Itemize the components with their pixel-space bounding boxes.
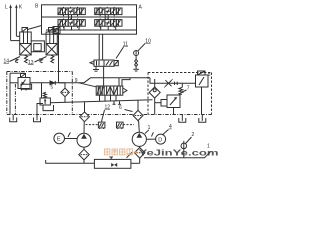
leader for label 10: [138, 44, 145, 51]
wire row connector right group: [107, 15, 109, 20]
solenoid of valve 8: [198, 71, 206, 75]
svg-text:E: E: [57, 137, 61, 143]
wire relief valve 7 drain: [173, 108, 175, 115]
suction filter of pump 1: [79, 147, 89, 163]
wire pilot diagonal from valve 13 to block B: [54, 28, 59, 30]
wire diagonal to mid rail: [84, 78, 150, 83]
valve 8 body: [196, 75, 209, 87]
solenoid right of valve 11: [114, 61, 118, 66]
gauge isolator diamonds: [135, 56, 138, 70]
manifold block B outline: [42, 5, 137, 34]
valve 14 solenoid: [22, 28, 28, 33]
tank stub under valve 11: [93, 66, 99, 71]
return filter diamond: [59, 83, 70, 103]
wire relief valve 5 drain to tank 2: [37, 104, 43, 115]
pressure filter of pump 1: [80, 102, 90, 133]
tank stub under gauge line: [133, 69, 139, 71]
pressure filter of pump 2: [133, 100, 143, 132]
check valve arrow on pilot line: [50, 81, 55, 85]
wire L riser with up arrow: [9, 4, 19, 40]
watermark: [105, 148, 219, 157]
relief valve 5 body: [40, 98, 50, 105]
wire valve 9 up-right bend: [122, 78, 130, 86]
spring of valve 13: [51, 55, 54, 63]
solenoid of valve 4: [21, 74, 26, 78]
wire internal divider of block B: [42, 16, 137, 18]
valve V3 (block B row1 right): [95, 7, 122, 16]
wire valve 11 output down to mid rail: [103, 66, 105, 78]
leader for label 4: [163, 130, 169, 135]
wire pilot diagonal from valve 14 to block B: [28, 26, 42, 30]
wire pressure lines from block B down to valve 11: [98, 34, 100, 60]
relief valve 5 spring: [43, 92, 46, 98]
wire relief valve 5 pilot: [41, 83, 43, 98]
level gauge circle 2: [181, 141, 187, 158]
shaft M2 to pump 2: [146, 138, 155, 140]
pressure gauge 10: [134, 51, 139, 56]
electric motor M1: [54, 133, 65, 144]
svg-text:A: A: [139, 5, 143, 11]
relief valve 7 spring: [181, 83, 183, 87]
leader for label 6: [125, 110, 133, 112]
svg-text:6: 6: [119, 105, 122, 111]
drain chevrons valve 14: [15, 59, 18, 63]
leader to suction filter 2: [127, 152, 133, 158]
svg-text:7: 7: [187, 86, 190, 92]
relief valve 7 body: [167, 95, 180, 108]
valve 11 body: [94, 60, 114, 66]
suction filter of pump 2: [131, 146, 145, 163]
valve V4 (block B row2 right): [95, 19, 122, 28]
tank symbol 2 (left): [34, 115, 41, 122]
adjustable throttle on pilot line: [164, 79, 173, 88]
wire drain riser from block B down: [58, 28, 60, 83]
pilot valve E inside block B bottom: [53, 27, 60, 34]
svg-text:5: 5: [51, 85, 54, 90]
wire bottom return to tank right: [144, 151, 211, 157]
wire valve 9 top port to mid rail: [118, 78, 120, 86]
pump 2: [132, 132, 146, 146]
wire port stubs row2 to rail right group: [100, 26, 102, 30]
valve 4 body: [18, 78, 32, 91]
pressure switch box right: [117, 122, 124, 129]
dashed wire to switch 12: [86, 124, 99, 126]
svg-text:9: 9: [75, 78, 78, 84]
leader for label 2: [186, 137, 192, 144]
pressure switch 12 box: [98, 122, 105, 129]
wire internal rail of block B: [46, 29, 137, 31]
wire mid rail drop to right pilot box: [150, 78, 196, 84]
enclosure dash-dot tank top line: [7, 114, 212, 116]
loop rectangle below relief valve 5: [43, 105, 54, 111]
tank symbol 3 (right): [179, 115, 186, 123]
enclosure dash-dot left boundary: [7, 72, 73, 115]
svg-text:2: 2: [192, 132, 195, 138]
svg-text:L: L: [5, 4, 8, 10]
electric motor M2: [156, 134, 166, 144]
valve 13 solenoid: [49, 28, 55, 33]
wire valve 13 side ports to riser: [57, 36, 58, 38]
svg-text:13: 13: [28, 60, 34, 66]
drain sub box with shutoff valve: [94, 157, 130, 168]
wire valve 8 drain: [201, 87, 203, 115]
wire row connector left group: [71, 15, 73, 20]
valve 9 manifold: [96, 86, 123, 95]
spring of valve 14: [25, 55, 28, 63]
valve V1 (block B row1 left): [58, 7, 85, 16]
svg-text:10: 10: [145, 39, 151, 45]
pilot section left of relief valve 7: [161, 100, 167, 107]
wire suction line left: [46, 160, 95, 163]
leader for label 11: [116, 47, 124, 59]
leader for label 14: [10, 57, 21, 62]
svg-text:12: 12: [105, 105, 111, 111]
wire valve 4 output line: [30, 82, 84, 84]
leader for label 13: [35, 57, 47, 63]
pump 1: [77, 133, 91, 147]
svg-text:YeJinYe.com: YeJinYe.com: [139, 148, 219, 157]
main return line: [50, 100, 152, 103]
drain chevrons valve 13: [40, 59, 43, 63]
leader for label 7: [181, 90, 187, 93]
leader for label 9: [79, 83, 96, 87]
actuator wedge right of valve 9: [123, 88, 127, 93]
shaft M1 to pump 1: [65, 138, 78, 140]
wire port stubs row2 to rail left group: [63, 26, 65, 30]
wire left drain drop to tank 1: [9, 73, 11, 114]
enclosure dashed right pilot box: [148, 73, 212, 115]
check valve in right pilot box: [149, 79, 160, 115]
wire K riser with up arrow: [15, 4, 20, 36]
valve 13 body: [46, 32, 57, 55]
svg-text:4: 4: [169, 124, 172, 130]
svg-text:K: K: [19, 4, 23, 10]
coupling ticks on pilot line: [174, 82, 176, 85]
tank symbol 1 (left): [10, 115, 17, 122]
dashed wire from switch right: [123, 124, 134, 126]
wire valve 4 left port: [10, 82, 18, 84]
wire valve 9 bottom ports to return line: [99, 95, 101, 101]
valve 14 body: [20, 32, 32, 55]
junction tick marks below return line: [113, 101, 122, 104]
valve V2 (block B row2 left): [58, 19, 85, 28]
actuator wedge left of valve 11: [90, 61, 94, 64]
leader for label 12: [102, 110, 105, 122]
svg-text:D: D: [158, 137, 162, 143]
wire pipe bridge between valve 14 and 13: [31, 41, 44, 52]
svg-text:11: 11: [123, 42, 128, 48]
svg-text:B: B: [35, 4, 39, 10]
leader for label 1: [145, 130, 149, 134]
tank symbol 4 (right): [199, 115, 206, 123]
svg-text:14: 14: [4, 59, 10, 65]
